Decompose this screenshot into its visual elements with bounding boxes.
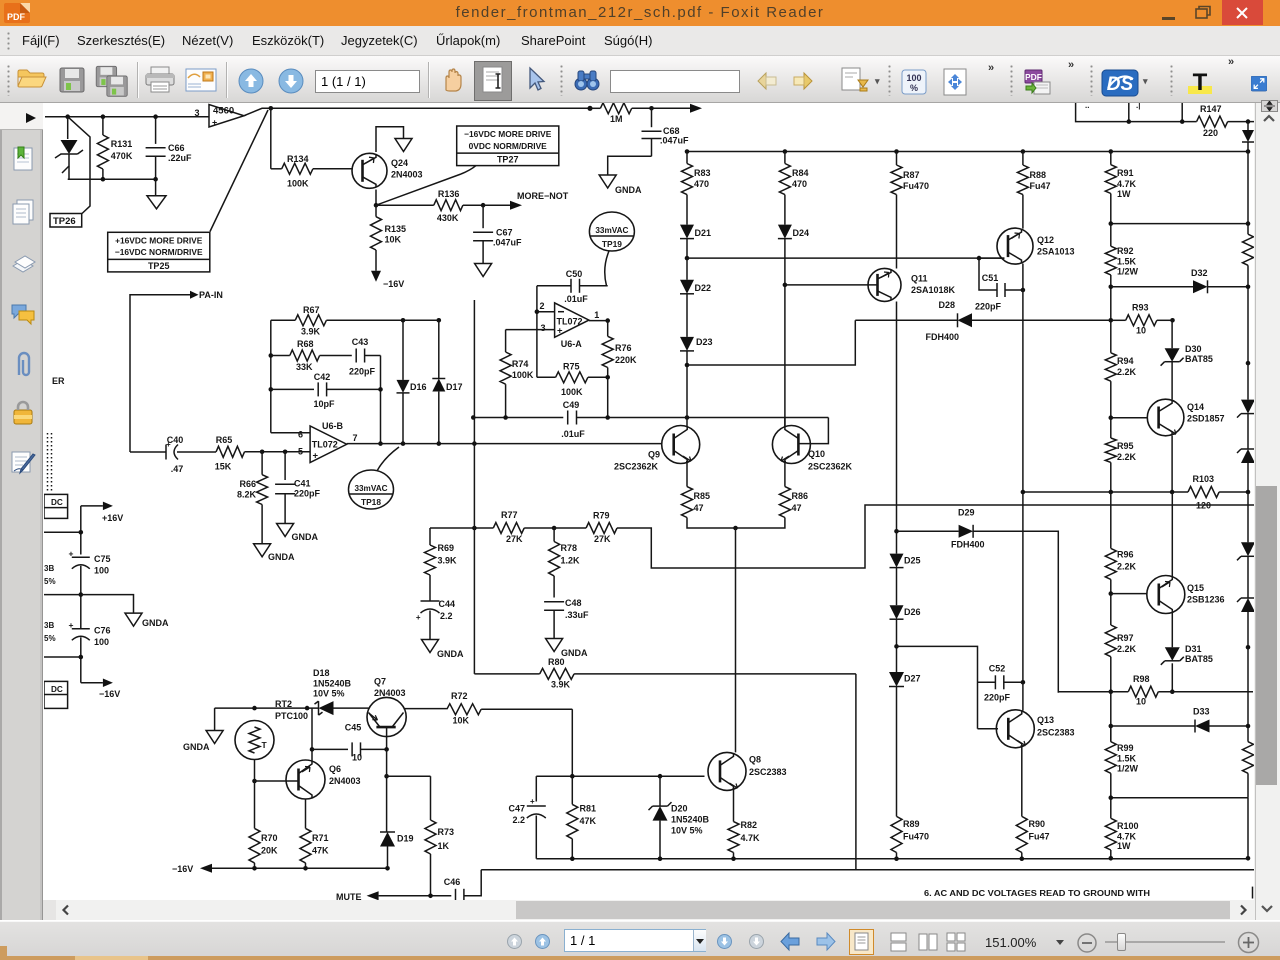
capacitor C67 [473,205,522,263]
wire Q14 base row [1111,417,1148,419]
diode D23 [680,337,713,418]
node left rail dot3 [79,655,84,660]
resistor R147 [1197,104,1254,138]
wire Q12 col down [1022,290,1024,682]
power -16V arrow left rail [81,678,120,699]
svg-text:−16VDC NORM/DRIVE: −16VDC NORM/DRIVE [115,247,203,257]
wire R87 to Q11 collector [896,195,898,269]
node center push-pull dot [733,526,738,531]
svg-text:−16V: −16V [99,689,120,699]
node Q6 base dot [252,779,257,784]
zener right rail 3 [1237,542,1259,598]
resistor R103 [1188,474,1248,511]
node C45 left dot [310,747,315,752]
svg-text:100K: 100K [287,179,309,189]
resistor R84 [779,152,808,225]
resistor R74 [500,352,534,418]
svg-text:+: + [416,613,421,622]
svg-text:4.7K: 4.7K [1117,179,1137,189]
svg-text:4560: 4560 [213,106,234,117]
label Q15 [1187,583,1225,605]
svg-text:R96: R96 [1117,550,1134,560]
node R147 right dot [1246,119,1251,124]
test point box VDC upper [44,494,68,518]
resistor R78 [549,528,580,598]
svg-text:ER: ER [52,376,65,386]
capacitor C45 [312,723,387,763]
capacitor C52 [978,664,1023,703]
wire bottom bus 2 [481,869,1254,871]
node left rail dot1 [79,530,84,535]
svg-text:220pF: 220pF [975,302,1002,312]
svg-text:R147: R147 [1200,104,1222,114]
svg-text:%: % [910,83,918,93]
svg-text:R69: R69 [438,543,455,553]
svg-text:C50: C50 [566,269,583,279]
svg-text:.|: .| [1136,103,1140,110]
svg-text:10: 10 [352,753,362,763]
svg-text:R94: R94 [1117,356,1134,366]
resistor R85 [682,487,711,518]
node Q7 col dots [384,747,389,778]
resistor R95 [1105,418,1136,492]
capacitor C66 [146,117,192,180]
node top-right dots [1127,119,1185,124]
svg-text:3: 3 [540,323,545,333]
svg-text:C46: C46 [444,877,461,887]
node R67 dots [401,318,441,323]
wire TP19 leader [605,251,609,286]
wire U6-B feedback left [270,320,272,432]
transistor Q9 [662,426,700,464]
svg-text:6: 6 [298,430,303,440]
diode D21 [680,225,711,259]
svg-text:GNDA: GNDA [183,742,210,752]
resistor R67 [271,305,439,337]
svg-text:R76: R76 [615,343,632,353]
svg-text:D26: D26 [904,607,921,617]
node diamond junction [587,106,592,111]
resistor R66 [237,452,268,544]
wire Q7 col down [386,749,388,832]
node junction dots top-left bus [65,114,158,119]
node U6-A output dot [605,318,610,323]
svg-text:2SC2362K: 2SC2362K [808,462,853,472]
node Q11 emitter node dot [894,529,899,534]
svg-text:15K: 15K [215,462,232,472]
svg-text:GNDA: GNDA [615,185,642,195]
resistor R134 [271,154,352,189]
wire Q6 collector up [311,708,313,761]
svg-text:6. AC AND DC VOLTAGES READ TO: 6. AC AND DC VOLTAGES READ TO GROUND WIT… [924,888,1150,898]
wire Q12 base row [979,257,1004,259]
ground GNDA below C68 [599,175,642,195]
svg-text:2SC2383: 2SC2383 [749,767,787,777]
svg-text:Fu47: Fu47 [1029,832,1050,842]
transistor Q6 [286,760,325,799]
svg-text:2SA1013: 2SA1013 [1037,247,1075,257]
wire D29 row [897,530,959,532]
diode D20 zener [649,776,710,859]
zener right rail 1 [1237,400,1259,449]
capacitor C47 [508,776,545,859]
svg-text:Q12: Q12 [1037,235,1054,245]
svg-text:3: 3 [194,108,199,118]
svg-text:C76: C76 [94,626,111,636]
wire right rail upper [1247,152,1249,235]
diode D16 [397,320,427,443]
resistor R89 [891,816,929,858]
resistor R96 [1105,492,1136,594]
label cut marks [1085,101,1140,110]
svg-text:R95: R95 [1117,441,1134,451]
diode D27 [889,672,921,816]
svg-text:D30: D30 [1185,344,1202,354]
wire pin 5 [262,451,310,453]
wire R99 bottom row [1111,797,1248,799]
wire Q13 base [978,728,999,730]
diode D25 [890,531,921,605]
svg-text:220pF: 220pF [984,693,1011,703]
svg-text:R88: R88 [1030,170,1047,180]
svg-text:2N4003: 2N4003 [329,776,361,786]
svg-text:5%: 5% [44,634,56,643]
capacitor C75 [69,549,111,630]
svg-text:220pF: 220pF [349,367,376,377]
svg-text:D32: D32 [1191,268,1208,278]
svg-text:220K: 220K [615,355,637,365]
op-amp U6-A TL072 [540,303,599,349]
resistor R94 [1105,320,1136,417]
svg-text:2N4003: 2N4003 [374,688,406,698]
wire R85 to center [687,518,736,529]
svg-text:T: T [262,740,268,750]
node 1M right dot [649,106,654,111]
resistor R82 [728,820,760,859]
diode D28 [925,300,972,342]
svg-text:D29: D29 [958,508,975,518]
wire Q15 top [1171,492,1173,577]
svg-text:4.7K: 4.7K [741,833,761,843]
svg-text:2SA1018K: 2SA1018K [911,285,956,295]
svg-text:2SC2362K: 2SC2362K [614,462,659,472]
svg-text:R134: R134 [287,154,309,164]
node R98 row dots [1109,689,1175,694]
resistor right rail upper [1243,234,1254,287]
capacitor C43 [349,337,381,377]
resistor R91 [1105,152,1136,224]
svg-text:R97: R97 [1117,633,1134,643]
node U6-A pin2 dot [535,309,540,314]
svg-text:Q14: Q14 [1187,402,1204,412]
svg-text:R67: R67 [303,305,320,315]
wire D21-D22 bus [687,257,1004,259]
resistor R79 [554,511,620,545]
wire C49 bus to Q10 base [799,418,829,444]
ground C48 GNDA [546,639,588,659]
svg-text:+: + [212,118,217,128]
svg-text:Q15: Q15 [1187,583,1204,593]
svg-text:47: 47 [694,503,704,513]
svg-text:R92: R92 [1117,246,1134,256]
svg-text:220pF: 220pF [294,489,321,499]
svg-text:Q24: Q24 [391,158,408,168]
wire Q7 col row right [387,775,431,777]
svg-text:R103: R103 [1193,474,1215,484]
wire Q7 base down [386,727,388,749]
svg-text:C47: C47 [508,804,525,814]
svg-text:D16: D16 [410,382,427,392]
transistor Q7 [367,697,406,736]
wire top-left input bus [45,116,209,118]
capacitor C41 [275,452,320,524]
wire center col to Q8 [735,528,737,752]
svg-text:TP19: TP19 [602,239,622,249]
svg-text:R80: R80 [548,657,565,667]
diode D33 [1193,707,1248,733]
wire C46 riser [464,870,481,896]
svg-text:+16V: +16V [102,513,123,523]
resistor R72 [447,691,572,726]
zener right rail 2 [1237,445,1259,492]
svg-text:100: 100 [94,566,109,576]
svg-text:.01uF: .01uF [561,429,585,439]
page right margin tick [1252,887,1254,899]
svg-text:TP26: TP26 [53,216,76,227]
label Q6 [329,764,361,786]
resistor R86 [779,487,808,518]
svg-text:10: 10 [1136,326,1146,336]
svg-text:D25: D25 [904,556,921,566]
wire top bus to R134 [270,108,272,169]
capacitor C46 [444,877,464,901]
svg-text:D27: D27 [904,674,921,684]
ground C66 GNDA [147,179,166,209]
wire R86 to center [736,518,785,529]
diode D19 [380,832,414,868]
node Q15 base dot [1109,591,1114,596]
svg-text:R87: R87 [903,170,920,180]
wire pin 3 [506,329,555,331]
svg-text:R136: R136 [438,189,460,199]
wire U6-B output pin7 [347,443,662,445]
svg-text:C48: C48 [565,598,582,608]
capacitor C48 [544,598,589,639]
transistor Q15 [1147,576,1185,614]
node Q14 base dot [1109,415,1114,420]
ground Q24 GNDA symbol [395,139,412,152]
resistor R73 [425,776,454,896]
wire R76 node down [607,377,609,417]
svg-text:TP25: TP25 [148,261,170,271]
ground GNDA mute [183,708,223,752]
svg-text:C49: C49 [563,400,580,410]
resistor R131 [97,117,132,180]
svg-text:D31: D31 [1185,644,1202,654]
svg-text:1/2W: 1/2W [1117,267,1139,277]
svg-text:RT2: RT2 [275,699,292,709]
wire zener to TP26 [68,166,70,179]
svg-text:47K: 47K [580,816,597,826]
wire D33 row [1111,725,1195,727]
thermistor RT2 [235,699,308,760]
svg-text:TP27: TP27 [497,155,519,165]
resistor R97 [1105,594,1136,692]
svg-text:1N5240B: 1N5240B [671,815,710,825]
svg-text:1.5K: 1.5K [1117,754,1137,764]
svg-text:33K: 33K [296,362,313,372]
arrow MORE-NOT [483,191,569,210]
wire RT2 bottom [254,760,256,782]
svg-text:DC: DC [51,685,63,694]
svg-text:2.2K: 2.2K [1117,644,1137,654]
svg-text:1W: 1W [1117,189,1131,199]
svg-text:430K: 430K [437,213,459,223]
svg-text:D28: D28 [938,300,955,310]
svg-text:TP18: TP18 [361,497,381,507]
svg-text:33mVAC: 33mVAC [354,484,387,493]
label Q7 [374,677,406,699]
svg-text:R78: R78 [561,543,578,553]
svg-text:FDH400: FDH400 [951,540,985,550]
svg-text:+: + [557,326,563,337]
svg-text:C66: C66 [168,143,185,153]
svg-text:100: 100 [906,73,921,83]
svg-text:D24: D24 [793,228,810,238]
svg-text:R91: R91 [1117,168,1134,178]
node 4560 output dot [269,106,274,111]
node D33 right dot [1246,724,1251,729]
wire Q10 collector [784,418,786,427]
diode D17 [432,320,462,443]
svg-text:C40: C40 [167,435,184,445]
svg-text:C51: C51 [982,273,999,283]
power +16V arrow [81,502,123,523]
wire DC box stub [44,531,81,533]
wire mid bus [430,527,474,529]
wire GNDA stub left [44,594,81,596]
svg-text:C68: C68 [663,126,680,136]
svg-text:BAT85: BAT85 [1185,654,1213,664]
wire C43-C42 right vertical [380,356,382,444]
wire R80 drop right [855,674,857,870]
svg-text:R84: R84 [792,168,809,178]
resistor R93 [1111,303,1173,336]
wire PA-IN [130,295,190,452]
wire pin3 drop to R74 [505,330,507,352]
svg-text:10K: 10K [453,716,470,726]
node R99 row dots [1109,795,1114,800]
svg-text:PDF: PDF [7,12,26,22]
svg-text:+16VDC MORE DRIVE: +16VDC MORE DRIVE [115,236,203,246]
test point box TP25 [108,232,210,272]
svg-text:3.9K: 3.9K [551,680,571,690]
wire R72 drop [571,709,573,776]
transistor Q13 [996,710,1034,748]
svg-text:R85: R85 [694,491,711,501]
wire D26 node to C52 col [897,646,978,728]
diagonal wire to TP25 box [210,110,268,232]
svg-text:1W: 1W [1117,841,1131,851]
node Q12 base branch dot [977,256,982,261]
wire mute top row [215,707,319,709]
resistor R136 [376,189,483,223]
resistor right rail lower [1243,742,1254,798]
svg-text:R82: R82 [741,820,758,830]
svg-text:D33: D33 [1193,707,1210,717]
node left rail dot2 [79,592,84,597]
svg-text:2SD1857: 2SD1857 [1187,414,1225,424]
wire Q7 emitter-collector row [404,708,447,710]
resistor R76 [602,321,637,378]
wire U6-A output [589,320,608,322]
diode D29 [951,508,985,550]
label Q11 [911,274,956,296]
wire R91-R92 row [1111,223,1248,225]
svg-text:PDF: PDF [1025,72,1042,82]
svg-text:.047uF: .047uF [493,238,522,248]
svg-text:.33uF: .33uF [565,610,589,620]
svg-text:100K: 100K [512,370,534,380]
svg-text:GNDA: GNDA [268,552,295,562]
wire C49 bus right [577,417,829,419]
wire TP18 leader [377,447,399,471]
node C49 bus dots [471,415,689,420]
label Q14 [1187,402,1225,424]
svg-text:R68: R68 [297,339,314,349]
wire Q11 emitter col [896,302,898,532]
wire C49 bus left [473,417,563,419]
svg-text:MORE−NOT: MORE−NOT [517,191,569,201]
node R93 junction dots [1109,318,1175,323]
svg-text:D19: D19 [397,834,414,844]
svg-text:U6-B: U6-B [322,421,344,431]
svg-text:C52: C52 [989,664,1006,674]
resistor R70 [249,781,278,868]
svg-text:C67: C67 [496,228,513,238]
zener diode top-left [55,117,83,173]
diode D18 zener [313,668,369,715]
svg-text:R100: R100 [1117,821,1139,831]
wire 4560 output to top bus [244,108,590,115]
svg-text:7: 7 [353,433,358,443]
svg-text:2N4003: 2N4003 [391,170,423,180]
wire D23 node elbow [687,320,855,365]
resistor R98 [1058,674,1253,707]
svg-text:C75: C75 [94,554,111,564]
svg-text:..: .. [1085,103,1089,110]
svg-text:D18: D18 [313,668,330,678]
resistor R83 [682,152,711,225]
diagonal wire to TP27 [376,166,476,206]
wire top-right cut box [1076,103,1197,122]
label partial ER [52,376,65,386]
node right vertical dots [378,387,383,446]
diode right-rail top [1242,122,1254,152]
node mid bus dots [472,526,556,531]
node R136 right dot [481,203,486,208]
diode D26 [890,605,921,672]
svg-text:R71: R71 [312,833,329,843]
svg-text:R77: R77 [501,510,518,520]
svg-text:2.2K: 2.2K [1117,367,1137,377]
node mute top dots [252,706,309,711]
node D24 col dot [783,283,788,288]
transistor Q12 [997,228,1033,264]
svg-text:1.2K: 1.2K [561,556,581,566]
wire left rail upper [80,506,82,555]
svg-text:Q8: Q8 [749,755,761,765]
